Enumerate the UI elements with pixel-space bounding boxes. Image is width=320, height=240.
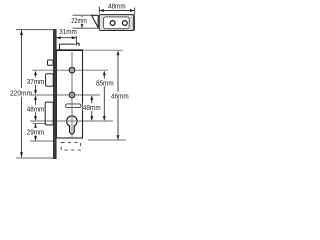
latch bolt wedge (top view) — [92, 15, 99, 27]
dimension 48mm left bottom arrow — [34, 116, 37, 121]
case top edge thick — [56, 49, 83, 51]
dimension 22mm line — [81, 16, 83, 28]
dimension 48mm top left arrow — [99, 9, 104, 12]
label 29mm — [27, 128, 45, 135]
dimension 37mm line — [35, 74, 37, 93]
dimension 220mm bottom arrow — [20, 152, 23, 157]
dimension 85mm top arrow — [103, 71, 106, 76]
keep plate screw hole left — [110, 21, 115, 26]
upper fixing hole — [69, 68, 74, 73]
svg-text:29mm: 29mm — [27, 128, 45, 137]
deadbolt box — [45, 102, 53, 125]
dimension 48mm top right arrow — [130, 9, 135, 12]
top view: latch top reference line — [73, 14, 94, 16]
tick for 31mm right reference — [75, 36, 77, 44]
vertical centreline overlay — [71, 52, 73, 137]
dimension 46mm bottom arrow — [117, 135, 120, 140]
svg-text:46mm: 46mm — [111, 92, 129, 101]
latch snib clip (small box) — [48, 60, 54, 65]
dimension 29mm bottom arrow — [34, 136, 37, 141]
label 48mm left — [27, 105, 45, 112]
extension line case bottom left y141 — [30, 140, 57, 142]
svg-text:220mm: 220mm — [10, 88, 32, 97]
centreline y95 inside case — [57, 94, 82, 96]
top view: latch bottom reference line — [73, 27, 100, 29]
dimension 220mm vertical line — [21, 31, 23, 158]
dimension 46mm top arrow — [117, 51, 120, 56]
svg-text:48mm: 48mm — [108, 1, 126, 10]
dimension 220mm top arrow — [20, 30, 23, 35]
dimension 37mm top arrow — [34, 71, 37, 76]
label 220mm — [10, 88, 34, 97]
extension line 220mm bottom reference — [16, 157, 54, 159]
dashed hidden box below case — [61, 143, 80, 151]
keep plate screw hole right — [122, 21, 127, 26]
svg-text:48mm: 48mm — [27, 105, 45, 114]
dimension 48mm right top arrow — [90, 95, 93, 100]
top step block on case — [60, 44, 76, 49]
dimension 29mm top arrow — [34, 124, 37, 129]
keep plate inner face — [104, 17, 130, 29]
svg-text:37mm: 37mm — [27, 77, 45, 86]
dimension 48mm right bottom arrow — [90, 116, 93, 121]
dimension 85mm line — [103, 72, 105, 121]
dimension 46mm line — [117, 51, 119, 140]
svg-text:85mm: 85mm — [96, 79, 114, 88]
keep plate outer (top view) — [99, 15, 134, 31]
centreline y70.2 inside case — [57, 69, 82, 71]
euro cylinder profile — [67, 116, 77, 134]
label 48mm right — [83, 103, 102, 110]
label 37mm — [27, 77, 45, 84]
extension line 220mm top reference — [16, 29, 54, 31]
extension line cylinder centreline y121 — [30, 120, 113, 122]
dimension 37mm bottom arrow — [34, 90, 37, 95]
svg-text:22mm: 22mm — [71, 16, 87, 25]
dimension 31mm line — [56, 37, 76, 39]
dimension 48mm top line — [100, 10, 135, 12]
extension line lower hole centreline y95 — [30, 94, 100, 96]
dimension 29mm line — [35, 124, 37, 141]
dimension 85mm bottom arrow — [103, 116, 106, 121]
vertical centreline through case — [71, 52, 73, 137]
svg-text:48mm: 48mm — [83, 103, 101, 112]
dimension 31mm left arrow — [56, 36, 61, 39]
label 85mm — [96, 79, 115, 86]
extension line case top right y50.2 — [83, 49, 124, 51]
lower fixing hole — [69, 92, 74, 97]
extension line upper hole centreline y70.2 — [32, 69, 108, 71]
tick 48mm top right — [134, 8, 136, 15]
latch bolt box — [46, 74, 54, 87]
dimension 48mm left top arrow — [34, 95, 37, 100]
horizontal slot — [66, 104, 82, 108]
faceplate bar — [53, 29, 57, 159]
label 22mm — [72, 17, 87, 24]
extension line bottom right y140 — [88, 139, 126, 141]
dimension 48mm left line — [35, 96, 37, 120]
dimension 31mm right arrow — [72, 36, 77, 39]
top step hook tab — [76, 43, 79, 46]
dimension 22mm top arrow — [81, 16, 84, 20]
tick 29mm top reference y123.2 — [33, 122, 46, 124]
dimension 22mm bottom arrow — [81, 24, 84, 28]
lock case body — [57, 50, 83, 138]
dimension 48mm right line — [91, 96, 93, 120]
centreline y121 inside case — [57, 120, 82, 122]
label 46mm — [111, 92, 130, 99]
tick 48mm top left — [98, 7, 100, 14]
keep plate right end dark edge — [133, 15, 135, 30]
